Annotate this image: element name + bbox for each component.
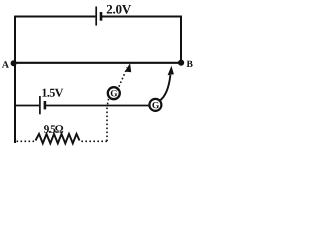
battery 1.5V short plate: [44, 101, 47, 109]
label 9.5ohm: [44, 125, 63, 133]
wire middle branch right: [46, 105, 150, 107]
battery 2.0V long plate: [95, 7, 97, 26]
battery 1.5V long plate: [39, 96, 41, 114]
jockey arrow solid: [160, 75, 171, 101]
resistor 9.5ohm: [36, 134, 80, 144]
wire right vertical: [180, 16, 182, 63]
battery 2.0V short plate: [100, 12, 103, 21]
wire top rail right segment: [102, 16, 182, 18]
label 2.0V: [107, 5, 131, 14]
wire AB potentiometer: [14, 62, 179, 64]
wire top rail left segment: [15, 16, 95, 18]
label A: [2, 61, 9, 68]
node A: [11, 60, 17, 66]
wire dotted bottom right: [80, 140, 108, 142]
node B: [178, 60, 184, 66]
wire dotted from G2 to bottom: [107, 99, 109, 107]
label B: [187, 61, 193, 67]
wire left vertical: [14, 16, 16, 143]
label 1.5V: [42, 89, 63, 97]
wire dotted bottom left: [17, 140, 36, 142]
wire middle branch left: [15, 105, 39, 107]
galvanometer G1 solid: [149, 99, 161, 111]
wire dotted vertical: [106, 108, 108, 142]
jockey arrow dotted position: [117, 68, 127, 91]
galvanometer G2 dotted position: [108, 87, 120, 99]
